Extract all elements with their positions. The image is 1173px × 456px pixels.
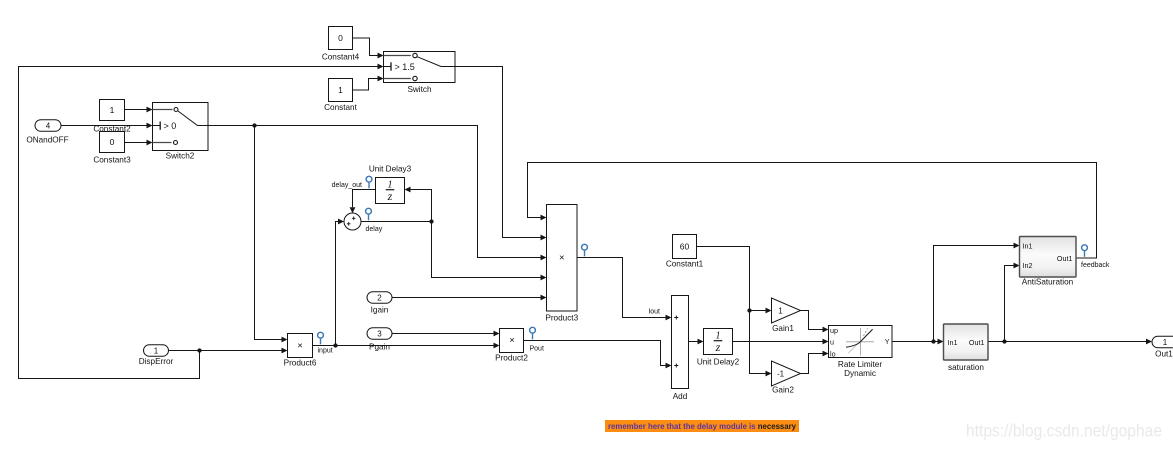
label Constant2 [93, 125, 131, 134]
svg-text:Gain1: Gain1 [772, 324, 794, 333]
svg-text:1: 1 [1163, 338, 1168, 347]
junction on saturation output [1002, 339, 1006, 343]
wire branch Switch2 output down to Product6 input 1 [255, 126, 288, 343]
svg-text:delay_out: delay_out [332, 182, 362, 189]
label Gain1 [772, 324, 794, 333]
wire Gain2 output to Rate Limiter lo input [801, 351, 829, 374]
svg-text:Dynamic: Dynamic [844, 369, 876, 378]
label delay [366, 226, 383, 233]
svg-text:Product2: Product2 [495, 354, 528, 363]
svg-text:z: z [387, 189, 393, 203]
svg-text:2: 2 [377, 293, 382, 302]
wire branch to Gain1 input [750, 308, 772, 314]
svg-text:Constant3: Constant3 [93, 156, 131, 165]
svg-text:Constant4: Constant4 [322, 53, 360, 62]
junction on delay line [429, 219, 433, 223]
label Product3 [545, 314, 578, 323]
subsystem AntiSaturation [1020, 237, 1077, 278]
svg-text:In2: In2 [1023, 261, 1033, 270]
block Gain2 [772, 361, 801, 386]
svg-text:Pgain: Pgain [369, 343, 390, 352]
label Pout [530, 346, 544, 353]
block Constant3 value 0 [100, 132, 125, 153]
svg-text:Constant1: Constant1 [666, 260, 704, 269]
inport 2 Igain [367, 292, 392, 304]
inport 1 DispError [144, 345, 169, 357]
junction on DispError line [197, 348, 201, 352]
svg-text:×: × [297, 341, 303, 352]
label Constant3 [93, 156, 131, 165]
badge Pout [530, 327, 536, 339]
label Iout [648, 309, 660, 316]
wire Constant2 to Switch2 input 1 [125, 107, 153, 113]
wire ONandOFF to Switch2 control input [61, 123, 153, 129]
junction on Constant1 line at Gain1 level [747, 308, 751, 312]
outport 1 Out1 [1152, 336, 1173, 348]
sum junction circle [344, 213, 361, 230]
wire Add output to Unit Delay2 [689, 339, 704, 345]
label Switch2 [166, 152, 195, 161]
label AntiSaturation [1022, 278, 1074, 287]
wire delay line down to Product3 input 4 [432, 222, 547, 281]
label DispError [139, 357, 174, 366]
junction on Rate Limiter output [931, 339, 935, 343]
label Switch [407, 85, 432, 94]
label Constant [324, 103, 357, 112]
badge Product3 output [582, 244, 588, 256]
block Constant2 value 1 [100, 100, 125, 121]
svg-text:Out1: Out1 [1155, 350, 1173, 359]
badge delay [366, 208, 372, 220]
wire Constant to Switch input 3 [353, 76, 384, 90]
label Gain2 [772, 386, 794, 395]
block Unit Delay3 [376, 178, 405, 204]
label ONandOFF [26, 136, 68, 145]
svg-text:1: 1 [778, 307, 783, 316]
wire branch up to AntiSaturation In2 [1005, 263, 1020, 342]
svg-text:Switch: Switch [407, 85, 432, 94]
svg-text:> 1.5: > 1.5 [395, 62, 415, 72]
wire Switch output to Product3 input 2 [455, 67, 547, 241]
svg-text:1: 1 [338, 85, 343, 95]
block Product6 [288, 334, 313, 358]
wire feedback from AntiSaturation Out1 to Product3 input 1 [528, 163, 1097, 259]
block Constant4 value 0 [329, 27, 353, 50]
label Constant1 [666, 260, 704, 269]
svg-text:1: 1 [110, 105, 115, 115]
block Rate Limiter Dynamic [829, 326, 893, 359]
svg-text:input: input [318, 348, 333, 355]
svg-text:ONandOFF: ONandOFF [26, 136, 68, 145]
svg-text:Rate Limiter: Rate Limiter [838, 360, 882, 369]
svg-text:remember here that the delay m: remember here that the delay module is n… [608, 422, 796, 431]
svg-text:Unit Delay2: Unit Delay2 [697, 358, 740, 367]
svg-text:Pout: Pout [530, 346, 544, 353]
svg-text:> 0: > 0 [164, 121, 177, 131]
svg-text:0: 0 [110, 137, 115, 147]
wire Constant1 output down to Gain2 [697, 247, 772, 377]
svg-text:Add: Add [673, 392, 688, 401]
badge input [318, 332, 324, 344]
label delay_out [332, 182, 362, 189]
inport 3 Pgain [367, 328, 392, 340]
subsystem saturation [944, 324, 989, 360]
wire Switch2 output to Product3 input 3 [208, 126, 547, 261]
svg-text:3: 3 [377, 329, 382, 338]
badge delay_out [366, 176, 372, 188]
wire DispError to Product6 input 2 [169, 348, 288, 354]
svg-text:feedback: feedback [1081, 262, 1110, 269]
svg-text:In1: In1 [948, 338, 958, 347]
label Product6 [284, 359, 317, 368]
wire Gain1 output to Rate Limiter up input [801, 311, 829, 333]
wire DispError branch loop to Switch control input [19, 64, 384, 379]
wire Unit Delay2 output to Rate Limiter u input [733, 339, 829, 345]
svg-text:Out1: Out1 [1057, 254, 1073, 263]
label Igain [371, 306, 389, 315]
wire Igain to Product3 input 5 [392, 295, 547, 301]
svg-text:Gain2: Gain2 [772, 386, 794, 395]
label Unit Delay3 [369, 165, 412, 174]
wire Constant3 to Switch2 input 3 [125, 140, 153, 146]
block Product3 [547, 205, 578, 312]
svg-text:In1: In1 [1023, 242, 1033, 251]
svg-text:Out1: Out1 [969, 338, 985, 347]
junction on Switch2 output [252, 123, 256, 127]
wire delay line up into Unit Delay3 right side [405, 187, 432, 222]
block Switch [384, 52, 456, 83]
svg-text:AntiSaturation: AntiSaturation [1022, 278, 1074, 287]
svg-text:lo: lo [830, 349, 836, 358]
svg-text:Igain: Igain [371, 306, 389, 315]
block Product2 [500, 329, 524, 353]
junction on Product6 output [333, 343, 337, 347]
svg-text:Switch2: Switch2 [166, 152, 195, 161]
label Pgain [369, 343, 390, 352]
label Add [673, 392, 688, 401]
wire saturation Out1 to outport Out1 [988, 339, 1152, 345]
block Constant1 value 60 [673, 235, 697, 259]
wire Product2 output Pout to Add input 2 [524, 341, 672, 369]
annotation orange note [605, 420, 799, 432]
label saturation [948, 363, 984, 372]
svg-text:-1: -1 [777, 370, 785, 379]
label Out1 [1155, 350, 1173, 359]
svg-text:Product3: Product3 [545, 314, 578, 323]
svg-text:Y: Y [885, 337, 890, 346]
svg-text:DispError: DispError [139, 357, 174, 366]
svg-text:1: 1 [154, 346, 159, 355]
wire branch Product6 output up to Sum left input [336, 219, 345, 346]
svg-text:Product6: Product6 [284, 359, 317, 368]
watermark [966, 421, 1162, 441]
svg-text:Constant: Constant [324, 103, 357, 112]
wire Pgain to Product2 input 1 [392, 331, 500, 337]
label Product2 [495, 354, 528, 363]
svg-text:up: up [830, 326, 838, 335]
label input [318, 348, 333, 355]
wire Unit Delay3 output to Sum top input [350, 190, 376, 214]
wire Constant4 to Switch input 1 [353, 38, 384, 58]
svg-text:saturation: saturation [948, 363, 984, 372]
wire Product3 output Iout to Add input 1 [577, 258, 672, 321]
label feedback [1081, 262, 1110, 269]
wire Sum output delay line [361, 221, 432, 223]
svg-text:4: 4 [46, 121, 51, 130]
svg-text:Unit Delay3: Unit Delay3 [369, 165, 412, 174]
badge feedback [1082, 245, 1088, 257]
block Constant value 1 [329, 79, 353, 102]
svg-text:u: u [830, 337, 834, 346]
wire Rate Limiter Y output to saturation In1 [892, 339, 944, 345]
wire Product6 output input signal to Product2 input 2 [313, 343, 500, 349]
svg-text:60: 60 [680, 242, 690, 252]
svg-text:×: × [559, 253, 565, 264]
block Switch2 [153, 103, 209, 151]
block Unit Delay2 [704, 329, 733, 355]
wire branch up to AntiSaturation In1 [934, 243, 1020, 342]
label Unit Delay2 [697, 358, 740, 367]
block Gain1 [772, 298, 801, 323]
svg-text:z: z [715, 340, 721, 354]
svg-text:×: × [509, 335, 515, 346]
svg-text:Iout: Iout [648, 309, 660, 316]
svg-text:delay: delay [366, 226, 383, 233]
svg-text:0: 0 [338, 33, 343, 43]
inport 4 ONandOFF [35, 120, 61, 132]
label Rate Limiter Dynamic [838, 360, 882, 378]
svg-text:https://blog.csdn.net/gophae: https://blog.csdn.net/gophae [966, 421, 1162, 441]
label Constant4 [322, 53, 360, 62]
block Add [672, 296, 689, 389]
